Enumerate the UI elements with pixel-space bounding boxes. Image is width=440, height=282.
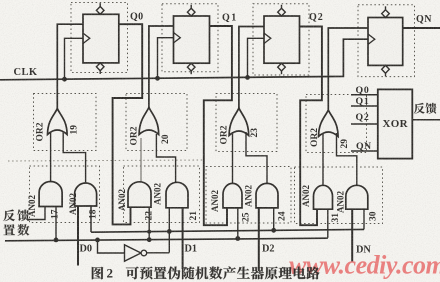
wire CLK bus — [0, 39, 368, 80]
wire AND24 bus input — [273, 208, 275, 230]
and-gate 25 — [223, 183, 242, 207]
or-gate 29 — [319, 110, 339, 137]
and-gate 22 — [128, 182, 151, 207]
wire DN net — [351, 209, 353, 261]
wire AND30 bus input — [363, 209, 365, 229]
wire AND25 out to OR23 — [232, 132, 234, 183]
wire AND25 preset input — [237, 208, 239, 239]
wire AND31 out to OR29 — [322, 133, 324, 185]
dashed cell box of flip-flop U1 — [71, 3, 128, 73]
wire Q0 net — [113, 24, 143, 224]
and-gate 30 — [346, 185, 368, 209]
junction B-AND22 — [147, 237, 152, 242]
inverter N1 — [125, 245, 142, 261]
wire AND17 preset input — [55, 207, 57, 240]
wire AND18 out to OR19 — [63, 132, 85, 185]
wire CLK riser to U2 — [158, 38, 174, 79]
wire Q2 net — [300, 27, 322, 226]
wire OR20 output to U2 D — [149, 26, 174, 107]
junction CLK-U2 — [155, 76, 160, 81]
wire OR23 output to U3 D — [239, 27, 264, 109]
wire XOR input Q1 — [351, 105, 378, 107]
and-gate 31 — [314, 185, 333, 209]
dashed cell box of flip-flop U2 — [162, 4, 218, 72]
wire AND22 preset input — [148, 207, 150, 240]
junction B-inverter — [95, 238, 100, 243]
dotted rule — [8, 160, 205, 161]
wire XOR input Q0 — [351, 94, 378, 96]
flip-flop U3 — [264, 16, 300, 63]
flip-flop U2 — [174, 16, 210, 63]
wire AND22 out to OR20 — [140, 138, 142, 182]
wire D0 net — [77, 206, 79, 266]
and-gate 24 — [256, 183, 278, 207]
and-gate 18 — [75, 183, 97, 206]
wire AND18 to bus A — [90, 206, 92, 233]
dashed cell box of AND gates 31-30 — [295, 167, 383, 224]
dashed cell box of AND gates 25-24 — [206, 167, 291, 224]
wire fankui stub — [28, 207, 46, 220]
figure caption — [92, 267, 104, 280]
wire CLK riser to U3 — [248, 38, 265, 77]
dashed cell box of AND gates 22-21 — [124, 166, 200, 223]
or-gate 19 — [48, 109, 68, 135]
or-gate 23 — [229, 108, 249, 136]
flip-flop U4 — [368, 18, 403, 66]
wire XOR input Q2 — [351, 123, 378, 125]
wire QN net — [403, 27, 440, 29]
wire preset bus B — [5, 238, 328, 241]
junction A-AND22 — [147, 230, 151, 234]
and-gate 21 — [166, 182, 188, 208]
junction A-AND21 — [167, 229, 172, 234]
junction CLK-U3 — [245, 75, 250, 80]
or-gate 20 — [139, 107, 159, 134]
dashed cell box of OR gate 29 — [306, 95, 367, 153]
wire AND24 out to OR23 — [246, 132, 267, 183]
flip-flop U1 — [83, 14, 119, 63]
wire D1 net — [182, 208, 184, 269]
wire AND21 bus input — [168, 208, 170, 253]
wire AND21 out to OR20 — [156, 134, 175, 182]
wire AND17 out to OR19 — [50, 132, 52, 182]
wire preset to inverter — [98, 240, 125, 253]
wire OR19 output to U1 D — [57, 24, 83, 108]
wire CLK riser to U1 — [65, 38, 84, 79]
wire Q1 net — [204, 26, 232, 225]
dashed cell box of flip-flop U3 — [253, 4, 309, 75]
dashed cell box of OR gate 20 — [126, 94, 187, 151]
wire XOR input QN — [351, 150, 378, 152]
junction A-AND24 — [271, 228, 276, 233]
wire OR29 output to U4 D — [328, 28, 368, 110]
junction B-AND25 — [235, 236, 240, 241]
dashed cell box of AND gates 17-18 — [30, 166, 100, 223]
dashed cell box of OR gate 23 — [216, 94, 277, 152]
wire AND31 preset input — [327, 209, 329, 238]
label net zhishu — [3, 224, 15, 235]
label net fankui — [3, 210, 15, 222]
dashed cell box of flip-flop U4 — [358, 5, 415, 77]
xor U5 — [378, 89, 413, 158]
wire D2 net — [258, 208, 260, 270]
wire inverted bus A — [91, 229, 364, 232]
junction CLK-U1 — [62, 77, 67, 82]
and-gate 17 — [39, 182, 62, 207]
wire XOR output feedback — [412, 119, 440, 121]
label net fankui at XOR — [414, 103, 425, 114]
dashed cell box of OR gate 19 — [34, 94, 97, 151]
wire AND30 out to OR29 — [337, 133, 357, 185]
junction B-AND17 — [54, 238, 59, 243]
wire inverter output — [147, 252, 170, 254]
